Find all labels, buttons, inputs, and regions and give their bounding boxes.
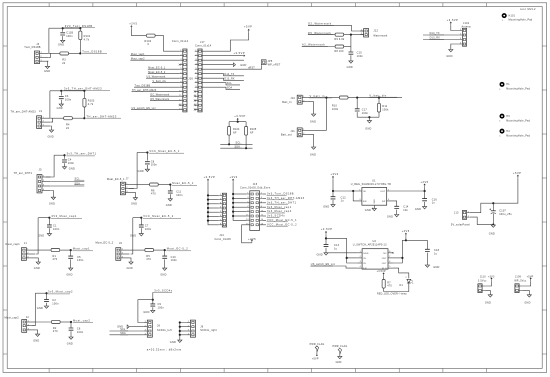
wire C17 stem	[356, 98, 358, 109]
wire +3.5VP rail J14	[208, 182, 219, 224]
svg-text:15: 15	[246, 224, 249, 226]
ground	[423, 207, 427, 209]
wire J15 pin14 VCC_Muat_EC-5_1	[263, 219, 266, 221]
ground sideways	[127, 325, 129, 329]
capacitor C16	[422, 199, 427, 201]
wire J109 pin1 to +5VP	[522, 281, 530, 286]
svg-text:100n: 100n	[52, 302, 59, 305]
svg-text:U_SWTCH_AP2511AP5-13: U_SWTCH_AP2511AP5-13	[353, 244, 387, 247]
wire cap stem	[62, 28, 64, 32]
wire J10 pin2 gnd	[307, 102, 313, 114]
svg-text:J5: J5	[39, 168, 42, 171]
svg-text:J8: J8	[157, 325, 160, 328]
wire J17 pin6 D14_TX	[202, 74, 244, 76]
svg-text:3: 3	[460, 38, 461, 40]
svg-text:GND: GND	[240, 64, 246, 67]
svg-text:1: 1	[43, 117, 44, 119]
svg-text:Muat_EC-5_1: Muat_EC-5_1	[148, 66, 166, 69]
svg-text:3: 3	[43, 125, 44, 127]
svg-text:2: 2	[122, 253, 123, 255]
junction	[164, 249, 166, 251]
wire SDA pin3	[51, 185, 85, 187]
junction	[492, 224, 494, 226]
svg-text:3V3_Tuot_DS18B: 3V3_Tuot_DS18B	[65, 24, 93, 28]
wire batt_in	[307, 97, 339, 99]
svg-text:2: 2	[180, 54, 181, 56]
ground	[145, 169, 149, 171]
svg-text:1: 1	[126, 183, 127, 185]
svg-text:3v3_SCD4x: 3v3_SCD4x	[154, 289, 173, 293]
wire C17 bottom	[356, 112, 358, 117]
ground	[425, 265, 429, 267]
mounting hole H1	[500, 82, 505, 87]
ground	[69, 268, 73, 270]
ground	[178, 340, 182, 342]
svg-text:J109: J109	[515, 276, 522, 279]
wire pin3 to gnd	[35, 258, 38, 262]
wire cap stem	[140, 218, 142, 225]
svg-text:GND: GND	[363, 253, 369, 255]
wire J15 pin10 3v3_Muat_cap2	[263, 211, 266, 213]
svg-text:NF: NF	[233, 132, 237, 135]
junction	[207, 207, 209, 209]
svg-text:NF: NF	[250, 132, 254, 135]
wire pin2 bend	[48, 53, 50, 57]
svg-text:100n: 100n	[357, 55, 364, 58]
svg-text:+3.5VP: +3.5VP	[204, 175, 216, 179]
wire pin3 to gnd	[129, 258, 131, 262]
resistor R10	[339, 96, 348, 99]
svg-text:GND: GND	[365, 209, 371, 212]
svg-text:GND: GND	[143, 311, 149, 314]
svg-text:3: 3	[28, 329, 29, 331]
svg-text:nRST: nRST	[248, 66, 255, 69]
wire riser 3v3	[36, 218, 39, 254]
ground	[69, 337, 73, 339]
svg-text:GND: GND	[49, 202, 55, 205]
wire J15 pin2 3v3_Tuot_DS18B	[263, 193, 266, 195]
svg-text:Muat_cap2: Muat_cap2	[73, 318, 90, 322]
svg-text:+5VP: +5VP	[513, 171, 521, 175]
svg-text:GND: GND	[38, 235, 44, 238]
wire +2V5 stem U2	[405, 236, 407, 240]
no-connect J17 pin 12	[194, 100, 196, 102]
svg-text:GND: GND	[67, 342, 73, 345]
svg-text:+5VP: +5VP	[244, 25, 252, 29]
LED D1	[407, 279, 411, 283]
junction	[207, 203, 209, 205]
wire +3V3 to U1 IN	[333, 180, 362, 191]
wire to gnd	[64, 163, 66, 167]
svg-text:470: 470	[151, 193, 156, 196]
resistor R9	[335, 33, 344, 36]
wire Muat_EC-5_2 to J16 pin 6	[148, 73, 180, 75]
svg-text:H1: H1	[506, 83, 510, 86]
svg-text:4: 4	[43, 189, 44, 191]
svg-text:PWR_FLAG: PWR_FLAG	[310, 343, 325, 346]
ground	[527, 295, 531, 297]
svg-text:10n: 10n	[403, 209, 408, 212]
svg-text:Batt_In: Batt_In	[282, 101, 292, 104]
svg-text:GND: GND	[323, 205, 329, 208]
wire Tuot_DS18B to J16 pin 9	[134, 86, 180, 88]
ground	[488, 295, 492, 297]
svg-text:100k: 100k	[332, 108, 339, 111]
U2 pin stubs right	[388, 257, 393, 259]
wire to gnd	[62, 36, 64, 40]
svg-text:2: 2	[406, 277, 407, 279]
resistor R6	[150, 183, 159, 186]
wire C12 stem	[332, 191, 334, 197]
junction	[146, 151, 148, 153]
svg-text:GND: GND	[485, 302, 491, 305]
no-connect J16 pin 13	[179, 104, 181, 106]
wire J15 pin3 tap	[233, 197, 247, 199]
svg-text:J7: J7	[126, 177, 129, 180]
svg-text:100n: 100n	[53, 228, 60, 231]
svg-text:MountingHole_Pad: MountingHole_Pad	[506, 88, 530, 91]
svg-text:Muat_EC-5_2: Muat_EC-5_2	[148, 71, 166, 74]
svg-text:Batt_out: Batt_out	[281, 134, 292, 137]
wire C13 to gnd net	[326, 248, 357, 253]
svg-text:TH_aer_DHT1: TH_aer_DHT1	[14, 172, 33, 175]
wire pin3 to gnd	[50, 126, 51, 130]
wire C5 to gnd	[70, 259, 72, 268]
wire J14 pin6 tap	[208, 215, 219, 217]
svg-text:100n: 100n	[176, 194, 183, 197]
jumper JP5 WP_nRST	[261, 60, 266, 65]
svg-text:3: 3	[41, 60, 42, 62]
svg-text:100u_25v: 100u_25v	[499, 213, 512, 216]
svg-text:4.7k: 4.7k	[88, 103, 94, 106]
svg-text:100n: 100n	[68, 162, 75, 165]
svg-text:VCC_Muat_EC-5_2: VCC_Muat_EC-5_2	[143, 214, 173, 218]
svg-text:Conn_01x14: Conn_01x14	[172, 40, 189, 43]
wire A2 to R8	[302, 46, 335, 48]
svg-text:2: 2	[460, 34, 461, 36]
junction	[325, 237, 327, 239]
svg-text:+3.5VP: +3.5VP	[234, 51, 246, 55]
svg-text:7: 7	[195, 77, 196, 79]
ground	[331, 205, 335, 207]
svg-text:VCC_Muat_EC-5_1: VCC_Muat_EC-5_1	[267, 218, 297, 222]
wire cap stem	[152, 300, 154, 304]
svg-text:GND: GND	[524, 302, 530, 305]
wire to gnd	[60, 100, 62, 104]
svg-text:Tuot_DS18B: Tuot_DS18B	[82, 50, 102, 54]
capacitor C14	[394, 206, 399, 208]
wire D14_TX to J101 pin2	[423, 34, 459, 36]
svg-text:GND: GND	[310, 154, 316, 157]
wire SCL pin2	[51, 181, 85, 183]
svg-text:H3: H3	[506, 115, 510, 118]
svg-text:J16: J16	[188, 78, 193, 81]
svg-text:22: 22	[62, 62, 66, 65]
svg-text:J2: J2	[26, 316, 29, 319]
no-connect U2 NC	[392, 252, 394, 254]
svg-text:Conn_01x08: Conn_01x08	[215, 238, 232, 241]
wire gnd stem	[368, 117, 370, 120]
ground	[324, 253, 328, 255]
svg-text:9: 9	[195, 86, 196, 88]
svg-text:J101: J101	[463, 22, 470, 25]
resistor R11 stem	[378, 98, 380, 104]
resistor R105 stem	[245, 122, 247, 127]
wire EN to U2	[311, 266, 358, 268]
wire J110 pin1 to +3V3	[485, 281, 491, 286]
wire BP to C14	[387, 201, 397, 206]
junction	[45, 292, 47, 294]
svg-text:+5VP: +5VP	[312, 358, 319, 361]
resistor R2	[52, 320, 61, 323]
svg-text:US_Watermark: US_Watermark	[147, 75, 166, 78]
svg-text:6: 6	[261, 202, 262, 204]
junction	[350, 34, 352, 36]
svg-text:3: 3	[43, 185, 44, 187]
svg-text:GND: GND	[433, 266, 439, 269]
svg-text:4: 4	[360, 266, 361, 268]
svg-text:8: 8	[195, 81, 196, 83]
svg-text:GND: GND	[415, 208, 421, 211]
svg-text:MountingHole_Pad: MountingHole_Pad	[506, 119, 530, 122]
svg-text:D14_TX: D14_TX	[224, 73, 234, 76]
svg-text:GND: GND	[317, 254, 323, 257]
svg-text:U_REG_SGM2019-2.5YN5G-TR: U_REG_SGM2019-2.5YN5G-TR	[351, 183, 391, 186]
wire 3v3 rail block2	[50, 90, 85, 92]
svg-text:GND: GND	[69, 167, 75, 170]
wire to V_batt_div	[379, 97, 402, 99]
capacitor C6	[69, 328, 74, 330]
wire Muat_EC-5_1 to J16 pin 5	[148, 68, 180, 70]
junction	[83, 90, 85, 92]
wire to IN pins	[326, 238, 357, 263]
svg-text:+3.5VP: +3.5VP	[447, 18, 459, 22]
svg-text:Conn_02x08_Odd_Even: Conn_02x08_Odd_Even	[240, 187, 271, 190]
wire LED to R7 bus	[384, 283, 409, 292]
wire R10 to C17	[348, 97, 379, 99]
wire +2V5 to R102	[131, 29, 146, 36]
wire pin1 to R6	[134, 184, 150, 186]
wire J14 pin3 tap	[208, 203, 219, 205]
svg-text:GND: GND	[365, 127, 371, 130]
wire C6 to gnd	[70, 331, 72, 337]
svg-text:3: 3	[360, 261, 361, 263]
capacitor C15	[349, 52, 354, 54]
wire J109 pin2 gnd	[522, 290, 529, 294]
svg-text:2: 2	[27, 253, 28, 255]
wire riser vcc	[131, 218, 133, 254]
wire cap stem	[64, 155, 66, 159]
svg-text:1: 1	[180, 50, 181, 52]
wire C14 to gnd	[396, 210, 398, 215]
junction	[207, 215, 209, 217]
svg-text:Watermark: Watermark	[373, 35, 388, 38]
wire riser 3v3	[49, 91, 51, 118]
wire pin1 to R3	[48, 52, 60, 54]
svg-text:3v3_TH_aer_DHT-AM23: 3v3_TH_aer_DHT-AM23	[64, 87, 102, 91]
connector J9	[190, 320, 195, 337]
svg-text:5: 5	[180, 68, 181, 70]
svg-text:U2: U2	[373, 240, 377, 243]
wire R2 to node	[60, 321, 71, 323]
svg-text:1u: 1u	[432, 202, 436, 205]
junction	[232, 197, 234, 199]
ground	[51, 197, 55, 199]
svg-text:4.7k: 4.7k	[84, 39, 90, 42]
svg-text:100n: 100n	[362, 112, 369, 115]
wire pin4 to gnd	[51, 191, 54, 198]
wire pin2 to side gnd	[129, 326, 144, 328]
wire SCL to J8 pin3	[110, 330, 144, 332]
svg-text:1u: 1u	[341, 200, 345, 203]
wire to gnd	[140, 228, 142, 233]
wire J15 pin11 tap	[233, 215, 247, 217]
wire J15 pin7 tap	[233, 206, 247, 208]
junction	[232, 193, 234, 195]
svg-text:IN: IN	[363, 258, 366, 260]
wire R8 to C15 node	[344, 46, 351, 48]
svg-text:1u: 1u	[434, 252, 438, 255]
ground	[151, 310, 155, 312]
wire SDA to J8 pin4	[110, 334, 144, 336]
capacitor C8	[145, 162, 150, 164]
wire C10 to gnd	[164, 259, 166, 268]
svg-text:Muut_vap2: Muut_vap2	[131, 57, 145, 60]
svg-text:4: 4	[145, 333, 146, 335]
svg-text:Muat_EC-5_2: Muat_EC-5_2	[167, 246, 189, 250]
wire J14 pin2 tap	[208, 199, 219, 201]
junction	[378, 97, 380, 99]
wire D2 to J12 pin1	[308, 25, 363, 31]
svg-text:J6: J6	[119, 242, 122, 245]
svg-text:GND: GND	[37, 307, 43, 310]
svg-text:+3.5VP: +3.5VP	[321, 227, 333, 231]
svg-text:1: 1	[303, 96, 304, 98]
ground	[449, 50, 453, 52]
wire R102 to J16 pin1	[155, 36, 180, 52]
svg-text:WP_nRST: WP_nRST	[268, 64, 281, 67]
svg-text:1: 1	[460, 29, 461, 31]
wire J17 pin1 to +5VP	[202, 33, 249, 52]
svg-text:2: 2	[43, 121, 44, 123]
svg-text:+2V5: +2V5	[129, 22, 137, 26]
svg-text:1: 1	[43, 176, 44, 178]
junction	[332, 190, 334, 192]
junction	[169, 184, 171, 186]
wire IN pin2 tap	[347, 257, 358, 259]
junction	[179, 326, 181, 328]
svg-text:3: 3	[27, 257, 28, 259]
svg-text:3v3_Muat_cap1: 3v3_Muat_cap1	[267, 205, 292, 209]
wire pin2 tap	[180, 326, 187, 328]
wire Muut_vap1 to J16 pin 2	[130, 55, 179, 57]
junction	[346, 257, 348, 259]
svg-text:SCL: SCL	[227, 82, 233, 85]
svg-text:GND: GND	[160, 273, 166, 276]
svg-text:4: 4	[261, 197, 262, 199]
svg-text:R9 6.8k: R9 6.8k	[335, 38, 345, 41]
wire pullup rail	[229, 121, 246, 123]
svg-text:3v3_SCD4x: 3v3_SCD4x	[267, 214, 285, 218]
svg-text:Muat_cap1: Muat_cap1	[6, 243, 21, 246]
svg-text:OUT: OUT	[382, 258, 388, 260]
svg-text:3: 3	[359, 199, 360, 201]
svg-text:MountingHole_Pad: MountingHole_Pad	[509, 18, 533, 21]
svg-text:1: 1	[122, 249, 123, 251]
wire C16 stem	[424, 191, 426, 199]
wire J15 pin6 3v3_TH_aer_DHT1	[263, 202, 266, 204]
svg-text:+3.5VP: +3.5VP	[377, 270, 386, 273]
ground	[45, 66, 49, 68]
svg-text:1: 1	[468, 211, 469, 213]
svg-text:1: 1	[41, 52, 42, 54]
junction	[232, 206, 234, 208]
wire J110 pin2 gnd	[485, 290, 490, 294]
capacitor C3	[59, 97, 64, 99]
svg-text:1: 1	[361, 30, 362, 32]
junction	[140, 217, 142, 219]
wire node to C10	[164, 250, 166, 256]
svg-text:J4: J4	[39, 110, 42, 113]
svg-text:IN: IN	[363, 263, 366, 265]
svg-text:PWR_FLAG: PWR_FLAG	[333, 345, 348, 348]
ground sideways	[233, 63, 235, 67]
wire J17 pin4 gnd	[202, 64, 234, 66]
svg-text:+3.5VP: +3.5VP	[234, 114, 246, 118]
svg-text:GND: GND	[34, 267, 40, 270]
resistor R101	[79, 28, 81, 31]
svg-text:IN: IN	[363, 191, 366, 193]
svg-text:J11: J11	[290, 130, 295, 133]
wire C9 to gnd	[152, 307, 154, 310]
connector J14	[222, 193, 226, 227]
wire pin4 tap	[180, 334, 187, 336]
wire 3v3 rail block3	[54, 154, 64, 156]
capacitor C4	[62, 160, 67, 162]
no-connect J17 pin 10	[194, 91, 196, 93]
wire J15 pin15 to +2V5	[242, 225, 252, 243]
svg-text:2: 2	[261, 193, 262, 195]
svg-text:100n: 100n	[171, 259, 178, 262]
wire cap stem	[60, 91, 62, 96]
junction	[83, 117, 85, 119]
svg-text:2: 2	[28, 324, 29, 326]
svg-text:J1: J1	[24, 242, 27, 245]
wire pin2 bend	[50, 118, 52, 122]
capacitor C7	[139, 225, 144, 227]
capacitor C9	[150, 304, 155, 306]
svg-text:4: 4	[180, 63, 181, 65]
junction	[368, 116, 370, 118]
resistor R105	[245, 127, 248, 136]
svg-text:7: 7	[247, 206, 248, 208]
svg-text:V_batt_div: V_batt_div	[153, 80, 167, 83]
svg-text:100n: 100n	[158, 306, 165, 309]
wire J14 pin5 tap	[208, 211, 219, 213]
svg-text:9: 9	[180, 86, 181, 88]
wire D5_Watermark to J16 pin 12	[150, 100, 180, 102]
wire C16 to gnd	[424, 202, 426, 207]
svg-text:Muat_cap1: Muat_cap1	[73, 246, 90, 250]
svg-text:GND: GND	[166, 204, 172, 207]
svg-text:2: 2	[360, 256, 361, 258]
capacitor C10	[162, 256, 167, 258]
wire TH_aer_DHT-AM23 to J16 pin 10	[132, 91, 180, 93]
wire US_switch_EN_vcc to J16 pin 14	[131, 109, 180, 111]
wire cap stem	[146, 153, 148, 161]
resistor R103	[83, 91, 85, 99]
wire vcc rail block6	[133, 217, 142, 219]
